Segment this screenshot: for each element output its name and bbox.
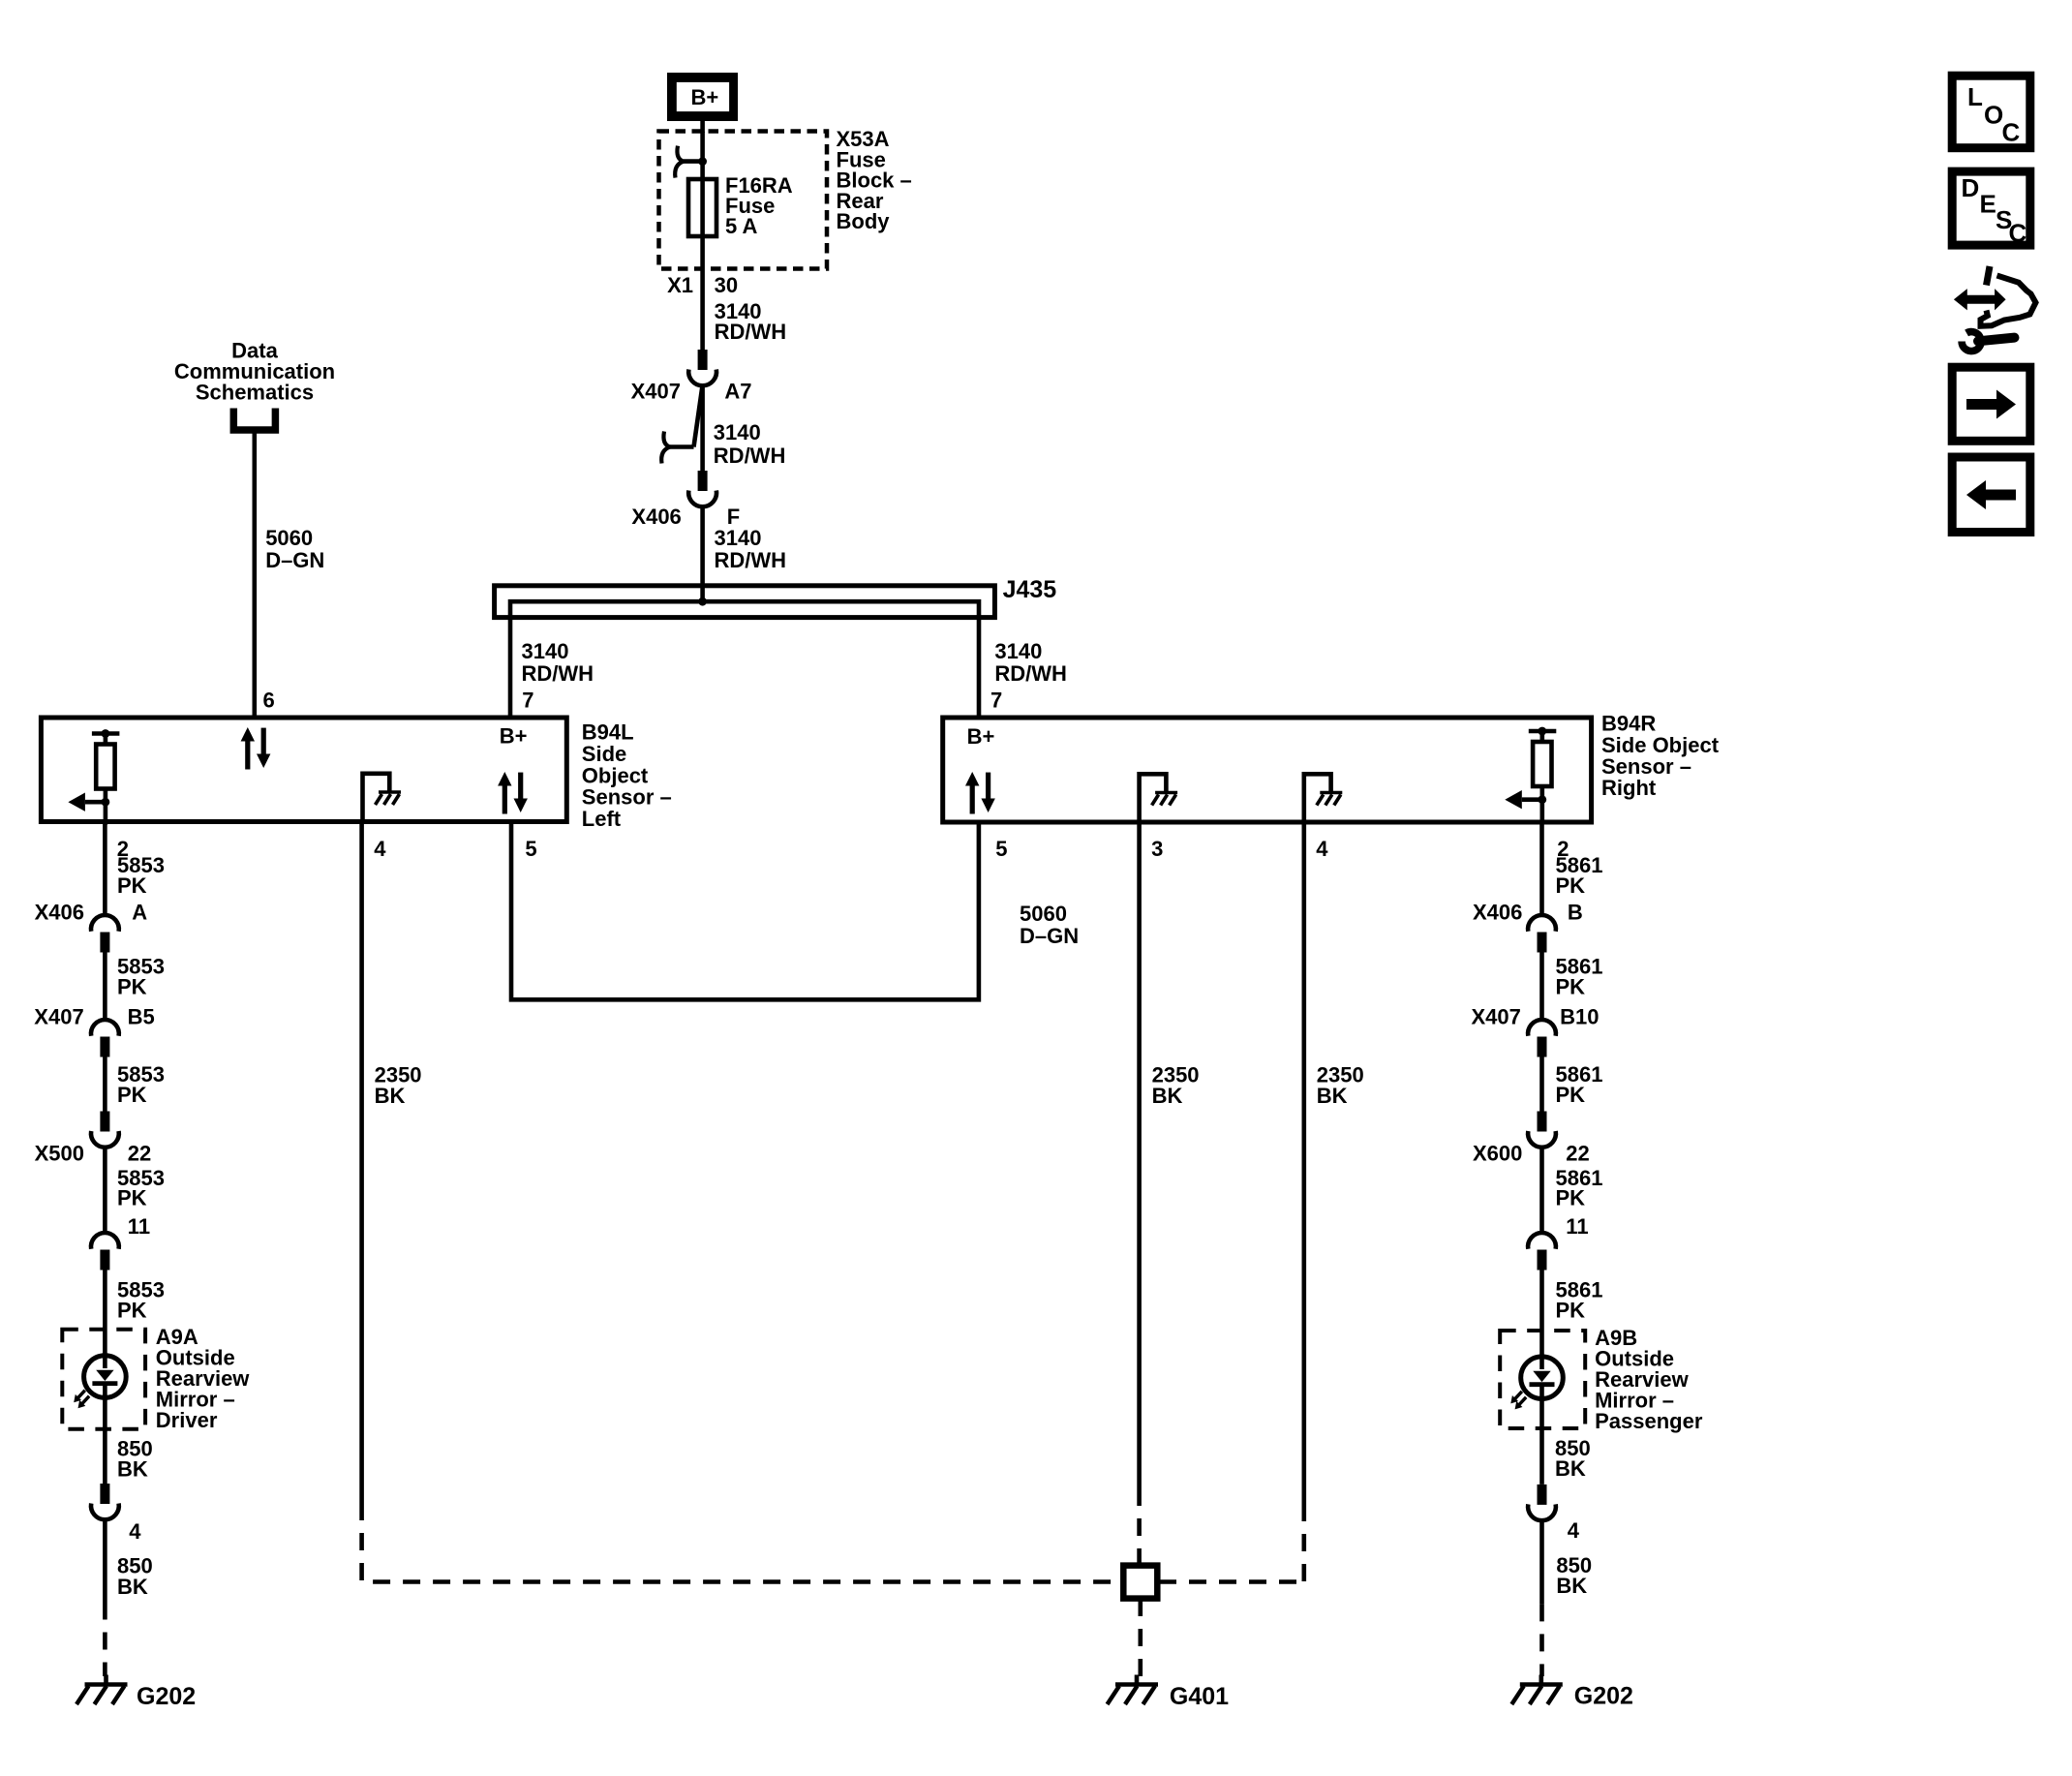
svg-text:L: L — [1967, 82, 1983, 111]
svg-text:PK: PK — [117, 1186, 147, 1210]
svg-text:RD/WH: RD/WH — [715, 320, 787, 344]
power symbol B+ feed — [667, 73, 738, 121]
svg-text:O: O — [1984, 101, 2003, 130]
B94R internal ground (pin 4) — [1304, 774, 1343, 822]
svg-text:Side: Side — [582, 742, 626, 766]
svg-text:BK: BK — [117, 1457, 148, 1482]
svg-text:RD/WH: RD/WH — [715, 548, 787, 572]
svg-text:C: C — [2002, 118, 2021, 147]
ground G401 — [1108, 1675, 1230, 1711]
wire label 850 BK (1) — [1555, 1436, 1591, 1481]
wire through fuse block — [700, 132, 705, 350]
svg-text:3140: 3140 — [714, 420, 761, 444]
svg-text:Driver: Driver — [156, 1408, 218, 1432]
pin labels X1 30 — [667, 273, 738, 297]
wire label 3140 RD/WH (left branch) — [522, 639, 594, 686]
svg-text:22: 22 — [128, 1142, 151, 1166]
wire B94R pin 4 down — [1302, 822, 1307, 1504]
svg-text:BK: BK — [375, 1084, 406, 1108]
branch to other circuits at X407 — [661, 385, 702, 464]
svg-text:PK: PK — [1556, 1299, 1586, 1323]
svg-text:BK: BK — [1556, 1574, 1587, 1598]
ground G202 (driver) — [76, 1675, 196, 1711]
svg-text:G202: G202 — [1574, 1682, 1633, 1709]
wire label 850 BK (2) — [117, 1554, 153, 1599]
wire to X500 — [103, 1057, 107, 1112]
svg-text:C: C — [2009, 219, 2027, 248]
B94L resistor with arrow (pin 2 drive) — [68, 729, 119, 824]
svg-text:X407: X407 — [631, 380, 681, 404]
fuse F16RA — [688, 173, 793, 238]
svg-text:PK: PK — [117, 975, 147, 999]
svg-text:B+: B+ — [500, 724, 528, 749]
icon arrow left box — [1952, 457, 2030, 533]
connector pin 11 (right) — [1528, 1214, 1588, 1270]
svg-text:BK: BK — [1152, 1084, 1183, 1108]
icon DESC box — [1952, 171, 2030, 247]
wire pin5 to pin5 link — [511, 822, 979, 1000]
wire label 5060 D-GN (right) — [1020, 902, 1079, 948]
wire to X407 — [103, 953, 107, 1022]
svg-text:D–GN: D–GN — [1020, 924, 1079, 948]
svg-text:5060: 5060 — [265, 526, 313, 550]
sensor B94L box — [41, 718, 566, 822]
wire label 5861 PK (4) — [1556, 1166, 1603, 1210]
svg-text:BK: BK — [1555, 1456, 1586, 1481]
B94R internal ground (pin 3) — [1140, 774, 1178, 822]
svg-text:3140: 3140 — [715, 526, 762, 550]
svg-text:X407: X407 — [1472, 1005, 1521, 1029]
label X53A Fuse Block Rear Body — [837, 127, 912, 233]
dashed wire pin 3 to splice — [1137, 1488, 1142, 1564]
wire to X407 — [1539, 953, 1544, 1022]
connector pin 4 (mirror) — [91, 1484, 141, 1544]
connector X407 pin B10 — [1472, 1005, 1600, 1057]
wire label 5861 PK (2) — [1556, 955, 1603, 999]
splice junction square — [1123, 1566, 1157, 1599]
dashed wire splice to ground — [1139, 1599, 1143, 1676]
junction dot in fuse block — [698, 157, 707, 166]
svg-text:3: 3 — [1151, 837, 1163, 861]
svg-text:X406: X406 — [1473, 901, 1522, 925]
dashed wire to ground — [1539, 1604, 1544, 1676]
svg-text:Left: Left — [582, 807, 622, 831]
B94R resistor with arrow (pin 2 drive) — [1505, 727, 1556, 822]
svg-text:B: B — [1568, 901, 1583, 925]
wire label 5853 PK (5) — [117, 1278, 165, 1323]
svg-text:BK: BK — [1317, 1084, 1348, 1108]
svg-text:X500: X500 — [35, 1142, 84, 1166]
wire label 3140 RD/WH (right branch) — [994, 639, 1067, 686]
wire to X600 — [1539, 1057, 1544, 1112]
svg-text:5 A: 5 A — [725, 214, 758, 238]
label A9B Outside Rearview Mirror Passenger — [1595, 1326, 1703, 1433]
svg-text:22: 22 — [1566, 1142, 1589, 1166]
svg-text:RD/WH: RD/WH — [522, 661, 594, 686]
svg-text:4: 4 — [1568, 1518, 1580, 1543]
svg-text:PK: PK — [117, 1083, 147, 1107]
svg-text:G202: G202 — [137, 1683, 196, 1710]
splice pack J435 — [495, 576, 1057, 718]
wire label 2350 BK (pin 4) — [1317, 1062, 1364, 1108]
B94L serial data arrows (pin 6) — [241, 727, 271, 770]
mirror A9A dashed box — [62, 1330, 145, 1429]
ground G202 (passenger) — [1511, 1675, 1633, 1710]
svg-text:11: 11 — [128, 1214, 150, 1239]
svg-text:A: A — [132, 901, 147, 925]
svg-text:G401: G401 — [1170, 1683, 1229, 1710]
B94L supply arrows (pin 5) — [498, 772, 528, 814]
svg-text:7: 7 — [522, 688, 533, 712]
wire B94R pin 2 down — [1539, 822, 1544, 917]
svg-text:PK: PK — [1556, 975, 1586, 999]
wire to mirror A9A — [103, 1271, 107, 1369]
wire label 5060 D-GN (left) — [265, 526, 324, 572]
svg-text:Body: Body — [837, 209, 891, 233]
connector X407 pin A7 — [631, 350, 752, 404]
dashed wire pin4-left to splice — [362, 1503, 1121, 1582]
svg-text:D: D — [1962, 173, 1980, 202]
wire label 3140 RD/WH (mid) — [714, 420, 786, 468]
svg-text:PK: PK — [1556, 1083, 1586, 1107]
svg-text:7: 7 — [990, 688, 1002, 712]
svg-text:11: 11 — [1566, 1214, 1588, 1239]
wire B94L pin 4 down — [359, 822, 364, 1504]
svg-text:Right: Right — [1601, 776, 1657, 800]
svg-text:3140: 3140 — [994, 639, 1042, 663]
connector X406 pin F — [631, 471, 740, 529]
svg-text:D–GN: D–GN — [265, 548, 324, 572]
B94L internal ground (pin 4) — [363, 774, 402, 822]
svg-text:A7: A7 — [724, 380, 751, 404]
svg-text:X600: X600 — [1473, 1142, 1522, 1166]
wire to mirror A9B — [1539, 1271, 1544, 1370]
wire X407 to X406 — [700, 387, 705, 472]
bus tap hook in fuse block — [675, 146, 702, 178]
wire label 5853 PK (1) — [117, 853, 165, 898]
mirror A9B dashed box — [1500, 1331, 1585, 1428]
svg-text:5060: 5060 — [1020, 902, 1067, 926]
svg-text:B94L: B94L — [582, 720, 634, 745]
wire X406 to splice J435 — [700, 508, 705, 602]
dashed wire splice to pin4-right riser — [1159, 1579, 1304, 1584]
dashed wire to ground — [103, 1603, 107, 1677]
wire below connector — [1539, 1521, 1544, 1604]
wire serial data to pin 6 — [252, 430, 257, 718]
LED indicator A9A — [74, 1356, 126, 1409]
svg-text:Object: Object — [582, 763, 649, 787]
wire to mirror connector — [1539, 1148, 1544, 1235]
connector pin 11 — [91, 1214, 150, 1270]
wire label 5861 PK (3) — [1556, 1062, 1603, 1107]
wire below LED — [103, 1383, 107, 1484]
wire label 2350 BK (pin 3) — [1152, 1062, 1200, 1108]
B94R supply arrows (pin 5) — [965, 772, 995, 814]
svg-text:BK: BK — [117, 1575, 148, 1599]
label A9A Outside Rearview Mirror Driver — [156, 1325, 251, 1432]
wire label 5853 PK (3) — [117, 1062, 165, 1107]
svg-text:J435: J435 — [1003, 576, 1057, 603]
svg-text:PK: PK — [117, 873, 147, 898]
svg-text:RD/WH: RD/WH — [994, 661, 1067, 686]
svg-text:E: E — [1980, 190, 1996, 219]
wire label 2350 BK (left) — [375, 1062, 422, 1108]
svg-text:X406: X406 — [631, 505, 681, 529]
wire B94L pin 2 down — [103, 822, 107, 917]
svg-text:4: 4 — [374, 837, 386, 861]
svg-text:3140: 3140 — [522, 639, 569, 663]
svg-text:Passenger: Passenger — [1595, 1409, 1703, 1433]
svg-text:30: 30 — [715, 273, 738, 297]
svg-text:B+: B+ — [967, 724, 995, 749]
svg-text:PK: PK — [1556, 873, 1586, 898]
svg-text:6: 6 — [263, 688, 275, 712]
svg-text:4: 4 — [129, 1519, 141, 1544]
wire label 3140 RD/WH (lower) — [715, 526, 787, 572]
svg-text:B94R: B94R — [1601, 712, 1656, 736]
connector X600 pin 22 — [1473, 1112, 1590, 1166]
wire label 5861 PK (1) — [1556, 853, 1603, 898]
svg-text:X406: X406 — [35, 901, 84, 925]
connector X407 pin B5 — [34, 1005, 154, 1057]
svg-text:5: 5 — [995, 837, 1007, 861]
dashed wire pin4-right to corner — [1302, 1504, 1307, 1582]
connector pin 4 (mirror A9B) — [1528, 1485, 1580, 1543]
wire below LED — [1539, 1384, 1544, 1485]
sensor B94R box — [943, 718, 1592, 822]
label B94L Side Object Sensor Left — [582, 720, 672, 831]
LED indicator A9B — [1510, 1357, 1563, 1410]
svg-text:4: 4 — [1316, 837, 1328, 861]
node Data Communication Schematics — [174, 338, 335, 430]
svg-text:PK: PK — [1556, 1186, 1586, 1210]
svg-text:Schematics: Schematics — [196, 380, 314, 404]
icon repair reference (arrow outline and wrench) — [1954, 266, 2036, 352]
icon arrow right box — [1952, 367, 2030, 441]
connector X406 pin A — [35, 901, 148, 953]
wire B+ to fuse block — [700, 121, 705, 133]
svg-text:RD/WH: RD/WH — [714, 444, 786, 468]
svg-text:B5: B5 — [128, 1005, 155, 1029]
connector X406 pin B — [1473, 901, 1583, 953]
svg-text:X407: X407 — [34, 1005, 83, 1029]
wire B94R pin 3 down — [1137, 822, 1142, 1488]
wire label 5861 PK (5) — [1556, 1278, 1603, 1323]
svg-text:B+: B+ — [691, 85, 719, 109]
svg-text:B10: B10 — [1560, 1005, 1599, 1029]
svg-text:5: 5 — [525, 837, 536, 861]
wire below connector — [103, 1521, 107, 1603]
wire label 850 BK (2) — [1556, 1553, 1592, 1598]
wire label 5853 PK (2) — [117, 955, 165, 999]
label B94R Side Object Sensor Right — [1601, 712, 1720, 800]
wire label 5853 PK (4) — [117, 1166, 165, 1210]
svg-text:X1: X1 — [667, 273, 693, 297]
connector X500 pin 22 — [35, 1112, 152, 1166]
wire to mirror connector — [103, 1148, 107, 1235]
fuse block X53A dashed box — [659, 132, 828, 269]
wire label 850 BK (1) — [117, 1437, 153, 1482]
icon LOC box — [1952, 76, 2030, 148]
svg-text:PK: PK — [117, 1299, 147, 1323]
wire label 3140 RD/WH (top) — [715, 299, 787, 344]
